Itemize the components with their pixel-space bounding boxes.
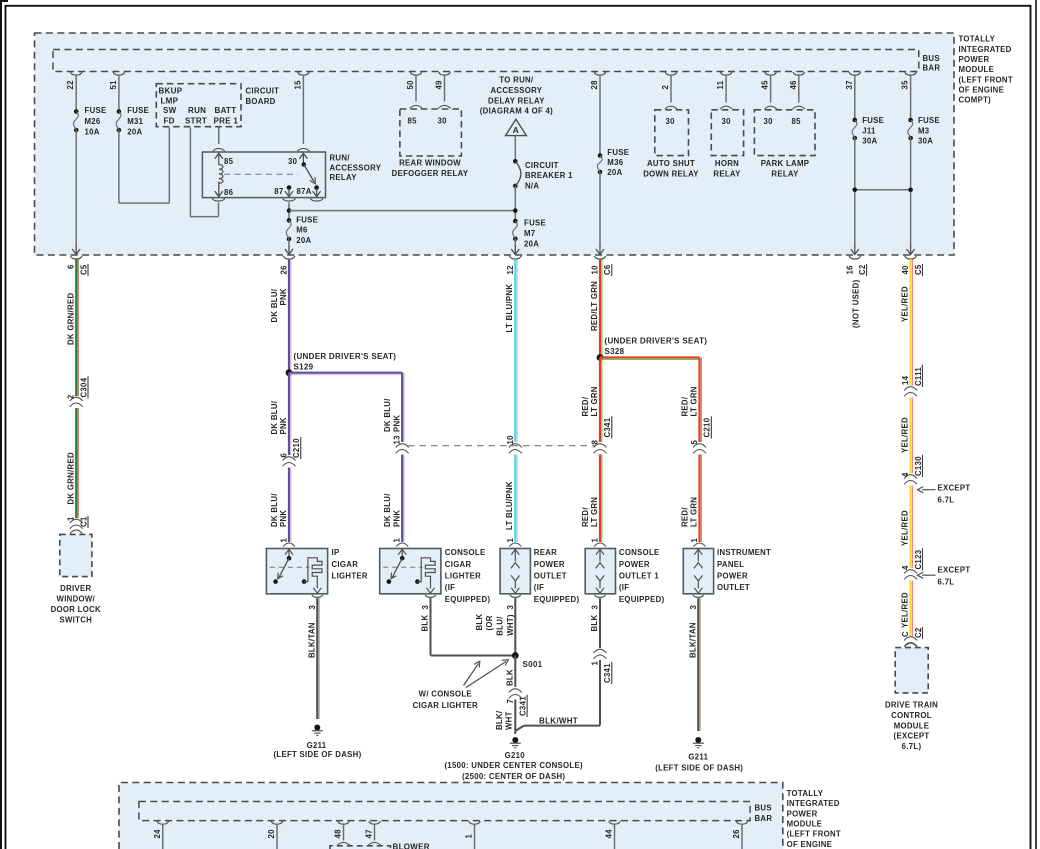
- svg-text:20: 20: [267, 829, 276, 839]
- svg-text:PNK: PNK: [279, 510, 288, 527]
- svg-text:RUN/: RUN/: [330, 154, 351, 163]
- wire C341 to console power outlet 1: [599, 455, 601, 543]
- svg-text:BLK/TAN: BLK/TAN: [307, 622, 316, 658]
- svg-text:C111: C111: [914, 367, 923, 386]
- svg-text:40: 40: [901, 265, 910, 275]
- wire fuse M36 to pin 10: [599, 172, 601, 247]
- page frame: [0, 0, 2, 849]
- driver window/door lock switch box: [60, 534, 92, 576]
- svg-text:RUN: RUN: [188, 106, 206, 115]
- relay K1 RUN/ACCESSORY RELAY box: [202, 152, 325, 198]
- bottom bus bar tap pin 26: [736, 821, 748, 824]
- svg-text:TOTALLY: TOTALLY: [787, 789, 824, 798]
- svg-text:(OR: (OR: [485, 615, 494, 630]
- bus bar tap pin 11: [720, 72, 732, 75]
- svg-text:PANEL: PANEL: [717, 560, 744, 569]
- svg-text:26: 26: [732, 829, 741, 839]
- svg-text:WHT: WHT: [504, 711, 513, 730]
- connector C123 pin 4: [904, 570, 917, 574]
- svg-text:DELAY RELAY: DELAY RELAY: [488, 96, 545, 105]
- wire pin46 to park lamp relay: [798, 75, 800, 103]
- svg-text:RELAY: RELAY: [330, 173, 358, 182]
- wire triangle A to circuit breaker: [514, 136, 516, 162]
- svg-text:SW: SW: [163, 106, 177, 115]
- svg-text:C6: C6: [603, 264, 612, 275]
- svg-text:47: 47: [365, 829, 374, 838]
- connector C6 pin 10: [594, 256, 606, 259]
- bus bar box (top): [53, 50, 919, 72]
- connector C341 pin 8: [594, 444, 607, 448]
- connector pin 12: [510, 256, 522, 259]
- wire pin2 to auto shut down relay: [670, 75, 672, 103]
- component IP cigar lighter: [266, 549, 327, 594]
- svg-text:BLU/: BLU/: [496, 616, 505, 636]
- svg-text:DK BLU/: DK BLU/: [270, 288, 279, 322]
- svg-text:RED/: RED/: [681, 507, 690, 527]
- svg-text:J11: J11: [862, 126, 876, 135]
- fuse M7 20A: [513, 219, 518, 224]
- svg-text:BLK/: BLK/: [495, 710, 504, 730]
- stub below relay 87A (unused): [310, 199, 323, 201]
- svg-text:S001: S001: [523, 660, 543, 669]
- relay dashed link line: [224, 173, 298, 175]
- svg-text:ACCESSORY: ACCESSORY: [330, 163, 382, 172]
- svg-text:RELAY: RELAY: [713, 169, 741, 178]
- svg-text:FUSE: FUSE: [918, 116, 940, 125]
- splice S129: [286, 369, 293, 376]
- svg-text:YEL/RED: YEL/RED: [901, 417, 910, 453]
- park lamp relay box: [754, 110, 815, 156]
- module box: Totally Integrated Power Module (top): [35, 33, 955, 255]
- svg-text:BLK/TAN: BLK/TAN: [688, 622, 697, 658]
- svg-text:37: 37: [845, 80, 854, 89]
- svg-text:30: 30: [722, 117, 732, 126]
- svg-text:30: 30: [666, 117, 676, 126]
- svg-text:(LEFT FRONT: (LEFT FRONT: [959, 75, 1013, 84]
- svg-text:SWITCH: SWITCH: [60, 615, 93, 624]
- svg-text:8: 8: [591, 440, 600, 445]
- svg-text:RED/: RED/: [581, 396, 590, 416]
- component console power outlet 1: [585, 549, 615, 594]
- bottom bus bar tap pin 1: [469, 821, 481, 824]
- connector C210 pin 5: [693, 444, 706, 448]
- svg-text:49: 49: [435, 80, 444, 90]
- svg-text:N/A: N/A: [525, 181, 539, 190]
- svg-text:RELAY: RELAY: [771, 169, 799, 178]
- svg-text:20A: 20A: [296, 236, 311, 245]
- svg-text:45: 45: [761, 80, 770, 90]
- wire pin37 to fuse J11: [854, 75, 856, 120]
- svg-text:EXCEPT: EXCEPT: [938, 566, 971, 575]
- svg-text:STRT: STRT: [185, 116, 207, 125]
- bottom bus bar tap pin 48: [338, 821, 350, 824]
- svg-text:DK BLU/: DK BLU/: [383, 398, 392, 432]
- svg-text:C1: C1: [79, 516, 88, 527]
- svg-text:(UNDER DRIVER'S SEAT): (UNDER DRIVER'S SEAT): [605, 337, 708, 346]
- ground G211 (right): [695, 737, 701, 743]
- svg-text:FUSE: FUSE: [127, 106, 149, 115]
- circuit breaker CB1: [513, 159, 518, 164]
- svg-text:MODULE: MODULE: [787, 820, 823, 829]
- svg-text:COMPT): COMPT): [959, 96, 992, 105]
- wire DK BLU/PNK pin26 to S129: [288, 259, 290, 372]
- connector pin 13 on dashed connector line: [396, 444, 409, 448]
- svg-text:BLK: BLK: [590, 615, 599, 632]
- svg-text:M6: M6: [296, 226, 308, 235]
- auto shut down relay box: [655, 110, 689, 156]
- svg-text:G210: G210: [505, 751, 526, 760]
- wire pin13 to console cigar lighter: [401, 455, 403, 543]
- svg-text:WHT): WHT): [506, 614, 515, 636]
- svg-text:86: 86: [224, 188, 234, 197]
- svg-text:BLK: BLK: [475, 614, 484, 631]
- svg-text:EQUIPPED): EQUIPPED): [445, 595, 491, 604]
- fuse M3 30A: [908, 118, 913, 123]
- svg-text:FUSE: FUSE: [85, 106, 107, 115]
- svg-text:TOTALLY: TOTALLY: [959, 35, 996, 44]
- ground G210: [512, 737, 518, 743]
- svg-text:LIGHTER: LIGHTER: [332, 572, 368, 581]
- svg-text:POWER: POWER: [717, 572, 748, 581]
- svg-text:(2500: CENTER OF DASH): (2500: CENTER OF DASH): [462, 772, 565, 781]
- svg-text:1: 1: [591, 661, 600, 666]
- stub below relay 86: [212, 199, 225, 201]
- svg-text:44: 44: [605, 829, 614, 839]
- svg-text:C341: C341: [603, 417, 612, 437]
- bottom bus bar tap pin 20: [271, 821, 283, 824]
- svg-text:C5: C5: [79, 264, 88, 275]
- svg-text:DRIVER: DRIVER: [60, 584, 91, 593]
- svg-text:C304: C304: [79, 377, 88, 397]
- svg-text:1: 1: [393, 538, 402, 543]
- svg-text:INSTRUMENT: INSTRUMENT: [717, 548, 771, 557]
- svg-text:A: A: [513, 125, 520, 135]
- svg-text:12: 12: [506, 265, 515, 275]
- bus bar tap pin 35: [905, 72, 917, 75]
- svg-text:2: 2: [661, 85, 670, 90]
- wire fuse M3 to pin 40: [910, 138, 912, 247]
- svg-text:85: 85: [408, 116, 418, 125]
- wire S328 branch right: [600, 356, 700, 358]
- svg-text:3: 3: [689, 605, 698, 610]
- svg-text:POWER: POWER: [959, 55, 990, 64]
- component rear power outlet: [500, 549, 530, 594]
- svg-text:CIGAR LIGHTER: CIGAR LIGHTER: [413, 701, 478, 710]
- wire RED/LT GRN pin10 to S328: [599, 259, 601, 357]
- wire S129 branch down to C341 line: [401, 373, 403, 442]
- wire S129 down to C210: [288, 373, 290, 455]
- wire BATT PRE 1 to relay 85: [218, 128, 220, 145]
- svg-text:YEL/RED: YEL/RED: [901, 592, 910, 628]
- fuse M6 20A: [287, 218, 292, 223]
- wire YEL/RED pin40 to C111: [909, 259, 911, 385]
- connector C5 pin 40: [905, 256, 917, 259]
- bottom bus bar tap pin 47: [369, 821, 381, 824]
- svg-text:CONSOLE: CONSOLE: [445, 548, 486, 557]
- svg-text:REAR: REAR: [534, 548, 557, 557]
- svg-text:M3: M3: [918, 126, 930, 135]
- svg-text:M26: M26: [85, 117, 101, 126]
- svg-text:46: 46: [789, 80, 798, 90]
- svg-text:CIGAR: CIGAR: [332, 560, 359, 569]
- module box: Totally Integrated Power Module (bottom): [119, 783, 783, 849]
- svg-text:30: 30: [288, 157, 298, 166]
- bottom bus bar tap pin 24: [157, 821, 169, 824]
- wire C111 to C130: [909, 398, 911, 474]
- svg-text:3: 3: [591, 605, 600, 610]
- bus bar tap pin 15: [298, 72, 310, 75]
- svg-text:LT BLU/PNK: LT BLU/PNK: [505, 481, 514, 530]
- connector C111 pin 14: [904, 387, 917, 391]
- svg-text:30: 30: [438, 116, 448, 125]
- svg-text:1: 1: [67, 516, 76, 521]
- wire DK GRN/RED pin6 to C304: [75, 259, 77, 396]
- relay contact 87A: [314, 185, 319, 190]
- svg-text:30A: 30A: [918, 137, 933, 146]
- fuse J11 30A: [853, 118, 858, 123]
- svg-text:HORN: HORN: [715, 159, 739, 168]
- svg-text:PRE 1: PRE 1: [214, 116, 239, 125]
- svg-text:DK GRN/RED: DK GRN/RED: [66, 452, 75, 504]
- svg-text:20A: 20A: [524, 239, 539, 248]
- svg-text:BREAKER 1: BREAKER 1: [525, 171, 573, 180]
- svg-text:BAR: BAR: [923, 64, 941, 73]
- off-page connector triangle A: [506, 119, 527, 135]
- svg-text:RED/LT GRN: RED/LT GRN: [590, 281, 599, 331]
- svg-text:1: 1: [465, 834, 474, 839]
- wire DK GRN/RED C304 to C1: [75, 408, 77, 518]
- wire circuit breaker to fuse M7: [514, 186, 516, 221]
- wire S001 to C341 pin 7: [514, 656, 516, 688]
- svg-text:POWER: POWER: [787, 809, 818, 818]
- svg-text:C2: C2: [914, 627, 923, 638]
- connector C210 pin 6: [283, 457, 296, 461]
- splice S001: [512, 652, 519, 659]
- svg-text:BLK/WHT: BLK/WHT: [539, 716, 578, 725]
- svg-text:5: 5: [690, 440, 699, 445]
- svg-text:7: 7: [506, 699, 515, 704]
- circuit board box: [156, 84, 241, 127]
- svg-text:(IF: (IF: [445, 583, 455, 592]
- svg-text:EQUIPPED): EQUIPPED): [534, 595, 580, 604]
- svg-text:OF ENGINE: OF ENGINE: [787, 840, 833, 849]
- svg-text:RED/: RED/: [681, 396, 690, 416]
- wire LT BLU/PNK pin12 down: [514, 259, 516, 442]
- svg-text:AUTO SHUT: AUTO SHUT: [647, 159, 695, 168]
- svg-text:1: 1: [506, 538, 515, 543]
- svg-text:51: 51: [109, 80, 118, 90]
- wire pin15 to relay 30: [302, 75, 304, 144]
- wire junction 87 to circuit breaker column: [289, 210, 515, 212]
- svg-text:10: 10: [591, 265, 600, 275]
- bus bar tap pin 49: [439, 72, 451, 75]
- svg-text:24: 24: [153, 829, 162, 839]
- svg-text:S129: S129: [294, 362, 314, 371]
- bus link J11-M3: [855, 189, 911, 191]
- connector C1 pin 1: [70, 519, 83, 523]
- bus bar tap pin 51: [113, 72, 125, 75]
- svg-text:C: C: [901, 631, 910, 637]
- bus bar tap pin 46: [793, 72, 805, 75]
- bus bar tap pin 28: [594, 72, 606, 75]
- svg-text:G211: G211: [307, 741, 327, 750]
- wire BLK/WHT console outlet to G210 junction: [599, 660, 601, 726]
- svg-text:YEL/RED: YEL/RED: [901, 286, 910, 322]
- svg-text:6.7L): 6.7L): [902, 742, 922, 751]
- svg-text:C5: C5: [914, 264, 923, 275]
- svg-text:DK BLU/: DK BLU/: [270, 400, 279, 434]
- svg-text:CIGAR: CIGAR: [445, 560, 472, 569]
- svg-text:OUTLET: OUTLET: [717, 583, 750, 592]
- svg-text:LIGHTER: LIGHTER: [445, 572, 481, 581]
- wire S129 branch to right: [289, 372, 402, 374]
- connector C304 pin 2: [70, 397, 83, 401]
- fuse M26 10A: [74, 109, 79, 114]
- svg-text:MODULE: MODULE: [894, 721, 930, 730]
- svg-text:TO RUN/: TO RUN/: [499, 76, 534, 85]
- svg-text:C130: C130: [914, 456, 923, 476]
- svg-text:POWER: POWER: [534, 560, 565, 569]
- svg-text:PNK: PNK: [392, 510, 401, 527]
- svg-text:PNK: PNK: [279, 288, 288, 305]
- wire fuse M6 to pin 26: [288, 239, 290, 247]
- connector pin 10 on dashed connector line: [509, 444, 522, 448]
- svg-text:48: 48: [334, 829, 343, 839]
- bus bar tap pin 22: [70, 72, 82, 75]
- component instrument panel power outlet: [683, 549, 713, 594]
- wire fuse M31 to SW FD: [118, 130, 120, 203]
- bus bar tap pin 45: [765, 72, 777, 75]
- svg-text:87A: 87A: [297, 187, 312, 196]
- wire pin50 to defogger 85: [415, 75, 417, 102]
- svg-text:FUSE: FUSE: [607, 148, 629, 157]
- wire pin10 to rear power outlet: [514, 455, 516, 543]
- wire C210 to IP cigar lighter: [288, 468, 290, 543]
- drive train control module box: [895, 648, 928, 693]
- svg-text:(IF: (IF: [619, 583, 629, 592]
- svg-text:RED/: RED/: [581, 507, 590, 527]
- svg-text:85: 85: [792, 117, 802, 126]
- svg-text:EXCEPT: EXCEPT: [938, 484, 971, 493]
- wire C210 pin5 to instrument panel power outlet: [698, 455, 700, 543]
- svg-text:REAR WINDOW: REAR WINDOW: [399, 159, 461, 168]
- svg-text:BLK: BLK: [505, 669, 514, 686]
- wire pin51 to fuse M31: [118, 75, 120, 112]
- svg-text:LT GRN: LT GRN: [690, 386, 699, 416]
- svg-text:6: 6: [280, 453, 289, 458]
- svg-text:DK GRN/RED: DK GRN/RED: [66, 293, 75, 345]
- connector C5 pin 6: [70, 256, 82, 259]
- svg-text:1: 1: [280, 538, 289, 543]
- connector C130 pin 4: [904, 475, 917, 479]
- wire S328 down to C341: [599, 358, 601, 443]
- wire pin35 to fuse M3: [910, 75, 912, 120]
- bus bar tap pin 50: [410, 72, 422, 75]
- svg-text:INTEGRATED: INTEGRATED: [959, 45, 1012, 54]
- svg-text:(LEFT FRONT: (LEFT FRONT: [787, 830, 841, 839]
- svg-text:IP: IP: [332, 548, 340, 557]
- svg-text:C123: C123: [914, 549, 923, 569]
- svg-text:FUSE: FUSE: [296, 215, 318, 224]
- svg-text:20A: 20A: [127, 128, 142, 137]
- svg-text:4: 4: [901, 472, 910, 477]
- svg-text:(LEFT SIDE OF DASH): (LEFT SIDE OF DASH): [274, 750, 362, 759]
- svg-text:PNK: PNK: [392, 415, 401, 432]
- svg-text:10A: 10A: [85, 128, 100, 137]
- bottom bus bar tap pin 44: [609, 821, 621, 824]
- svg-text:BAR: BAR: [755, 814, 773, 823]
- svg-text:(IF: (IF: [534, 583, 544, 592]
- wire fuse M26 to C5 pin6: [75, 130, 77, 247]
- svg-text:6.7L: 6.7L: [938, 496, 955, 505]
- svg-text:DK BLU/: DK BLU/: [270, 493, 279, 527]
- svg-text:DEFOGGER RELAY: DEFOGGER RELAY: [392, 169, 469, 178]
- svg-text:INTEGRATED: INTEGRATED: [787, 799, 840, 808]
- svg-text:26: 26: [280, 265, 289, 275]
- svg-text:BLOWER: BLOWER: [393, 843, 430, 849]
- svg-text:EQUIPPED): EQUIPPED): [619, 595, 665, 604]
- svg-text:CIRCUIT: CIRCUIT: [246, 87, 280, 96]
- svg-text:BKUP: BKUP: [159, 87, 183, 96]
- svg-text:11: 11: [716, 80, 725, 89]
- svg-text:87: 87: [274, 187, 283, 196]
- wire pin45 to park lamp relay: [770, 75, 772, 103]
- in-line connector dashed line: [408, 445, 596, 447]
- bus bar tap pin 37: [849, 72, 861, 75]
- svg-text:C341: C341: [603, 663, 612, 683]
- svg-text:50: 50: [406, 80, 415, 90]
- svg-text:M36: M36: [607, 158, 623, 167]
- svg-text:6: 6: [67, 264, 76, 269]
- wire RUN STRT to relay 86: [189, 128, 191, 217]
- svg-text:(1500: UNDER CENTER CONSOLE): (1500: UNDER CENTER CONSOLE): [445, 761, 583, 770]
- svg-text:BUS: BUS: [755, 804, 772, 813]
- svg-text:28: 28: [590, 80, 599, 90]
- wire fuse J11 to pin 16: [854, 138, 856, 247]
- horn relay box: [711, 110, 743, 156]
- splice S328: [597, 354, 604, 361]
- connector pin 26: [283, 256, 295, 259]
- svg-text:WINDOW/: WINDOW/: [57, 595, 96, 604]
- svg-text:(UNDER DRIVER'S SEAT): (UNDER DRIVER'S SEAT): [294, 352, 397, 361]
- svg-text:C341: C341: [519, 696, 528, 716]
- svg-text:C210: C210: [292, 438, 301, 458]
- svg-text:LMP: LMP: [161, 97, 179, 106]
- svg-text:DRIVE TRAIN: DRIVE TRAIN: [885, 701, 938, 710]
- wire pin11 to horn relay: [725, 75, 727, 103]
- svg-text:6.7L: 6.7L: [938, 578, 955, 587]
- wire fuse M7 to pin 12: [514, 239, 516, 247]
- svg-text:3: 3: [421, 605, 430, 610]
- svg-text:3: 3: [506, 605, 515, 610]
- wire relay 87 to fuse M6: [283, 199, 296, 201]
- svg-text:4: 4: [901, 565, 910, 570]
- relay contact 87: [287, 185, 292, 190]
- svg-text:W/ CONSOLE: W/ CONSOLE: [419, 690, 472, 699]
- svg-text:14: 14: [901, 375, 910, 385]
- svg-text:(DIAGRAM 4 OF 4): (DIAGRAM 4 OF 4): [480, 107, 553, 116]
- svg-text:13: 13: [393, 435, 402, 445]
- svg-text:FUSE: FUSE: [524, 219, 546, 228]
- svg-text:PARK LAMP: PARK LAMP: [761, 159, 809, 168]
- svg-text:ACCESSORY: ACCESSORY: [490, 86, 542, 95]
- wire S328 branch down to C210: [698, 358, 700, 443]
- svg-text:1: 1: [690, 538, 699, 543]
- svg-text:S328: S328: [605, 347, 625, 356]
- svg-text:CIRCUIT: CIRCUIT: [525, 161, 559, 170]
- svg-text:LT GRN: LT GRN: [690, 497, 699, 527]
- svg-text:FD: FD: [164, 116, 175, 125]
